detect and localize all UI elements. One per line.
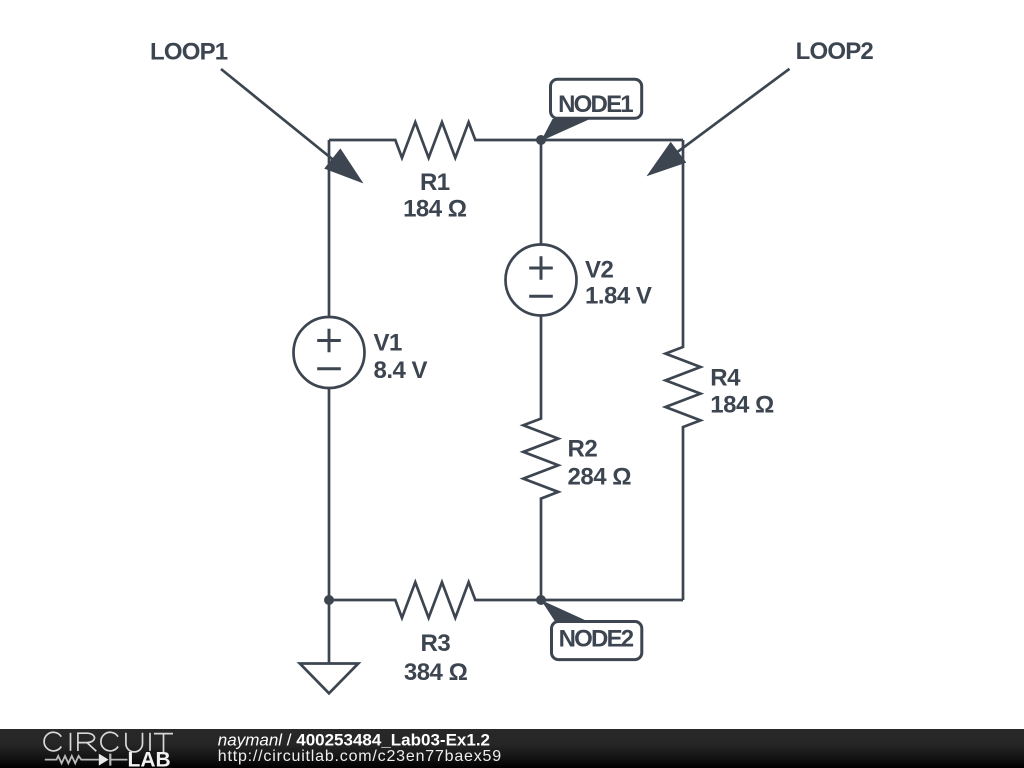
svg-text:R3: R3: [421, 630, 451, 657]
svg-text:NODE2: NODE2: [559, 626, 634, 653]
svg-text:LAB: LAB: [128, 748, 171, 768]
svg-text:LOOP2: LOOP2: [796, 38, 874, 65]
svg-text:LOOP1: LOOP1: [150, 39, 228, 66]
svg-text:naymanl / 400253484_Lab03-Ex1.: naymanl / 400253484_Lab03-Ex1.2: [218, 730, 490, 749]
svg-text:http://circuitlab.com/c23en77b: http://circuitlab.com/c23en77baex59: [218, 748, 502, 765]
svg-text:184 Ω: 184 Ω: [403, 195, 467, 222]
svg-text:V2: V2: [585, 257, 614, 284]
svg-text:NODE1: NODE1: [558, 91, 633, 118]
svg-text:R4: R4: [710, 364, 741, 391]
svg-text:R2: R2: [568, 435, 598, 462]
svg-text:184 Ω: 184 Ω: [710, 391, 774, 418]
svg-text:384 Ω: 384 Ω: [404, 659, 468, 686]
svg-text:8.4 V: 8.4 V: [374, 357, 428, 384]
svg-text:1.84 V: 1.84 V: [585, 283, 652, 310]
svg-text:284 Ω: 284 Ω: [568, 463, 632, 490]
svg-text:R1: R1: [420, 169, 450, 196]
svg-text:V1: V1: [374, 330, 403, 357]
